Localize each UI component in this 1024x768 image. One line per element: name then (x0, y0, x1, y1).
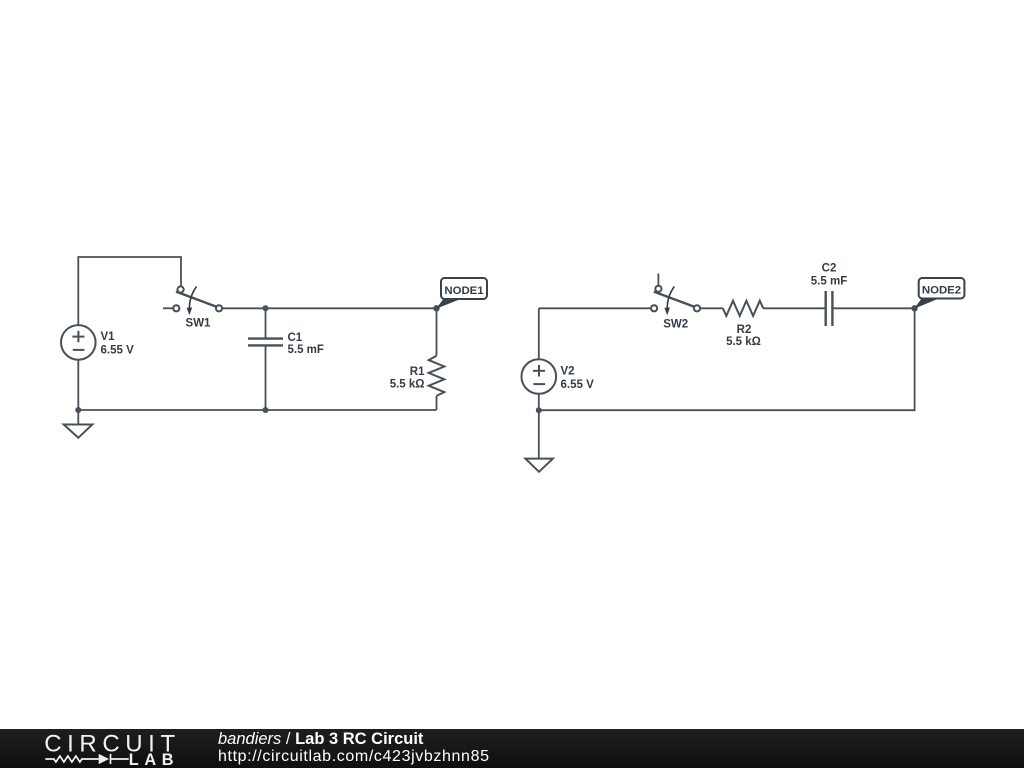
wire C2 to NODE2 (832, 307, 914, 309)
svg-text:R1: R1 (410, 366, 425, 378)
switch SW2 arrow (667, 287, 674, 310)
resistor R2 (723, 301, 763, 316)
node NODE2 (911, 305, 917, 311)
ground right (525, 459, 553, 472)
junction dot V2 bottom (536, 407, 542, 413)
wire V1 top to switch (78, 257, 181, 325)
svg-text:5.5 mF: 5.5 mF (288, 344, 324, 356)
voltage source V1 (61, 325, 96, 360)
junction dot C1 top (263, 305, 269, 311)
svg-text:V2: V2 (561, 365, 575, 377)
svg-text:C1: C1 (288, 332, 303, 344)
ground left (64, 425, 93, 438)
svg-text:NODE2: NODE2 (922, 285, 961, 297)
wire SW1 to NODE1 (222, 307, 436, 309)
svg-text:LAB: LAB (129, 751, 180, 768)
resistor R1 (429, 356, 445, 396)
wire V2 top lead (538, 308, 540, 359)
wire V2 bottom (538, 394, 540, 410)
capacitor C2 (826, 291, 833, 326)
wire R1 bottom lead (436, 396, 438, 410)
voltage source V2 (522, 359, 557, 394)
wire ground stem right (538, 410, 540, 458)
svg-text:SW1: SW1 (186, 317, 212, 329)
wire C1 bottom lead (265, 345, 267, 410)
node NODE1 (433, 305, 439, 311)
capacitor C1 (248, 339, 283, 346)
wire V1 bottom (77, 360, 79, 410)
wire C1 top lead (265, 308, 267, 338)
svg-text:6.55 V: 6.55 V (101, 345, 135, 357)
wire ground stem left (77, 410, 79, 425)
svg-text:5.5 mF: 5.5 mF (811, 276, 847, 288)
switch SW1 (173, 286, 222, 311)
svg-text:NODE1: NODE1 (444, 285, 484, 297)
wire bottom rail right circuit (539, 308, 915, 410)
wire SW2 top stub (657, 274, 659, 286)
svg-text:C2: C2 (822, 262, 837, 274)
svg-text:5.5 kΩ: 5.5 kΩ (726, 336, 761, 348)
wire SW1 open stub (163, 307, 173, 309)
wire bottom rail left circuit (78, 409, 436, 411)
switch SW2 (651, 286, 700, 312)
svg-text:V1: V1 (101, 331, 116, 343)
CircuitLab logo (40, 732, 185, 768)
svg-text:SW2: SW2 (663, 319, 688, 331)
wire SW2 to R2 (700, 307, 723, 309)
junction dot C1 bottom (263, 407, 269, 413)
svg-text:R2: R2 (737, 324, 752, 336)
switch SW1 arrow (189, 287, 196, 310)
footer title text (218, 731, 490, 766)
footer bar (0, 729, 1024, 768)
wire R2 to C2 (763, 307, 825, 309)
wire R1 top lead (436, 308, 438, 356)
svg-text:5.5 kΩ: 5.5 kΩ (390, 378, 425, 390)
svg-text:6.55 V: 6.55 V (561, 379, 595, 391)
wire V2 to SW2 (539, 307, 651, 309)
junction dot V1 bottom (75, 407, 81, 413)
